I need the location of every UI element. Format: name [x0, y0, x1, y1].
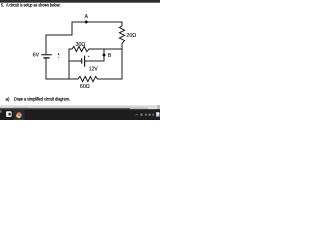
- svg-text:a): a): [6, 96, 10, 101]
- svg-text:6V: 6V: [33, 52, 40, 58]
- svg-text:30Ω: 30Ω: [76, 42, 86, 48]
- svg-text:60Ω: 60Ω: [80, 84, 90, 90]
- svg-text:5. A circuit is setup as show: 5. A circuit is setup as shown below:: [1, 2, 61, 7]
- svg-text:Draw a simplified circuit diag: Draw a simplified circuit diagram.: [14, 96, 70, 101]
- svg-text:20Ω: 20Ω: [126, 33, 136, 39]
- svg-text:12V: 12V: [89, 67, 99, 73]
